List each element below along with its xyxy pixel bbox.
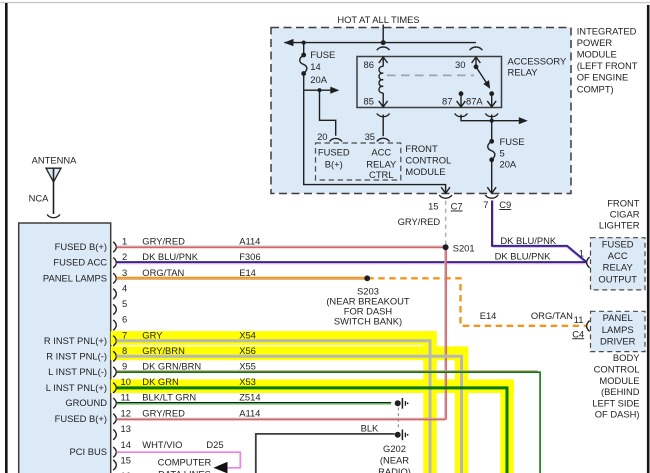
svg-text:RELAY: RELAY	[508, 66, 539, 77]
svg-text:GRY/RED: GRY/RED	[398, 216, 441, 227]
connector: pin 1 arc	[587, 257, 590, 268]
svg-text:10: 10	[121, 376, 131, 387]
wire: 87 stub with down arrow	[460, 94, 462, 107]
svg-text:ANTENNA: ANTENNA	[32, 154, 78, 165]
svg-text:FRONT: FRONT	[607, 197, 640, 208]
svg-text:DK GRN: DK GRN	[142, 376, 178, 387]
svg-text:FUSED: FUSED	[602, 238, 634, 249]
svg-text:FUSED ACC: FUSED ACC	[53, 257, 107, 268]
connector: frown arc above relay pin 30	[470, 47, 483, 50]
svg-text:MODULE: MODULE	[599, 375, 639, 386]
svg-text:R INST PNL(-): R INST PNL(-)	[46, 350, 107, 361]
page right border line	[647, 5, 650, 473]
svg-text:HOT AT ALL TIMES: HOT AT ALL TIMES	[337, 14, 419, 25]
svg-text:5: 5	[122, 298, 127, 309]
svg-text:ACCESSORY: ACCESSORY	[508, 56, 567, 67]
svg-text:GRY: GRY	[142, 329, 163, 340]
svg-text:LIGHTER: LIGHTER	[599, 219, 640, 230]
svg-text:86: 86	[364, 59, 374, 70]
highlight: yellow band row 8	[111, 346, 468, 360]
ground: G202 for BLK	[395, 430, 409, 441]
svg-text:C4: C4	[572, 328, 584, 339]
svg-text:S201: S201	[453, 242, 475, 253]
svg-text:SWITCH BANK): SWITCH BANK)	[334, 315, 402, 326]
svg-text:15: 15	[121, 455, 131, 466]
svg-text:INTEGRATED: INTEGRATED	[577, 25, 637, 36]
highlight: yellow band row 10	[111, 379, 514, 393]
arrow: down chevron at pin 85	[382, 93, 384, 107]
wire: GRY/RED vertical S201 to pin 12	[444, 247, 446, 419]
fuse F5 20A	[488, 121, 495, 193]
wire pin10 DK GRN	[117, 388, 508, 473]
wire: DK BLU/PNK from C9 to fused acc relay output	[493, 201, 585, 263]
connector: pin 20 frown arc	[329, 138, 342, 141]
node: junction 87 output	[490, 119, 494, 123]
connector: smile arc below pin 87	[455, 114, 468, 117]
svg-text:20: 20	[317, 131, 327, 142]
node: contact 87A	[489, 91, 494, 96]
svg-text:ACC: ACC	[371, 147, 391, 158]
svg-text:BLK/LT GRN: BLK/LT GRN	[142, 392, 196, 403]
svg-text:FUSED B(+): FUSED B(+)	[55, 413, 107, 424]
svg-text:7: 7	[122, 329, 127, 340]
node: junction to pin 20 drop	[317, 88, 321, 92]
wire: 87A stub with down arrow	[491, 94, 493, 107]
svg-text:2: 2	[122, 251, 127, 262]
svg-text:POWER: POWER	[577, 37, 613, 48]
svg-text:FRONT: FRONT	[405, 143, 438, 154]
svg-text:WHT/VIO: WHT/VIO	[142, 439, 182, 450]
svg-text:CONTROL: CONTROL	[405, 154, 451, 165]
fuse F14 20A	[300, 43, 307, 91]
node: switch pivot at pin 30	[474, 64, 479, 69]
module: Integrated Power Module (dashed box)	[271, 28, 571, 194]
svg-text:85: 85	[364, 96, 374, 107]
svg-text:11: 11	[121, 392, 131, 403]
svg-text:Z514: Z514	[239, 392, 260, 403]
svg-text:X56: X56	[239, 345, 256, 356]
wire: GRY/RED unused branch (gray dashed) below C7	[445, 201, 447, 248]
svg-text:G202: G202	[383, 443, 406, 454]
svg-text:35: 35	[365, 131, 375, 142]
arrow: down chevron at C7	[441, 187, 450, 193]
svg-text:BODY: BODY	[613, 352, 640, 363]
svg-text:C7: C7	[451, 201, 463, 212]
svg-text:LEFT SIDE: LEFT SIDE	[592, 397, 639, 408]
svg-text:FUSE: FUSE	[310, 49, 335, 60]
node: junction at HOT drop	[381, 40, 386, 45]
connector: pin 11 arc	[587, 321, 590, 332]
splice S203	[364, 275, 370, 281]
highlight: yellow band row 8 vertical	[455, 346, 468, 473]
wire pin3 ORG/TAN to S203	[117, 277, 368, 279]
switch: blade from 30 toward 87A	[476, 67, 487, 84]
svg-text:11: 11	[574, 314, 584, 325]
wire pin2 DK BLU/PNK to relay output	[117, 261, 587, 263]
svg-text:7: 7	[483, 199, 488, 210]
node: junction at fuse 14	[302, 41, 306, 45]
svg-text:GRY/RED: GRY/RED	[142, 407, 185, 418]
wire pin14 WHT/VIO PCI bus	[117, 452, 241, 468]
wire pin9 DK GRN/BRN	[117, 370, 538, 372]
svg-text:DK GRN/BRN: DK GRN/BRN	[142, 361, 201, 372]
svg-text:14: 14	[121, 439, 131, 450]
wire pin12 GRY/RED from S201	[117, 417, 446, 419]
svg-text:A114: A114	[239, 407, 260, 418]
svg-text:(LEFT FRONT: (LEFT FRONT	[577, 60, 638, 71]
svg-text:9: 9	[122, 361, 127, 372]
svg-text:B(+): B(+)	[325, 159, 343, 170]
svg-text:X53: X53	[239, 376, 256, 387]
wire: drop to FCM pin 20	[320, 90, 336, 136]
svg-text:DK BLU/PNK: DK BLU/PNK	[142, 251, 198, 262]
svg-text:OF DASH): OF DASH)	[595, 409, 640, 420]
wire pin8 GRY/BRN	[117, 356, 462, 473]
svg-text:BLK: BLK	[361, 423, 379, 434]
highlight: yellow band row 7 vertical	[423, 331, 436, 473]
svg-text:RELAY: RELAY	[603, 262, 634, 273]
svg-text:NCA: NCA	[29, 192, 50, 203]
svg-text:A114: A114	[239, 236, 260, 247]
coil: relay coil 86-85	[379, 66, 383, 93]
wire: branch with right arrow under fuse 14	[304, 89, 332, 91]
page top border line	[0, 2, 650, 4]
svg-text:COMPUTER: COMPUTER	[158, 457, 212, 468]
svg-text:L INST PNL(-): L INST PNL(-)	[48, 366, 107, 377]
svg-text:OF ENGINE: OF ENGINE	[577, 72, 629, 83]
svg-text:PANEL: PANEL	[603, 312, 633, 323]
page left border line	[5, 3, 8, 473]
node: contact 87	[459, 91, 464, 96]
svg-text:MODULE: MODULE	[577, 49, 617, 60]
svg-text:MODULE: MODULE	[405, 166, 445, 177]
wire: HOT feed drop into IPM	[382, 25, 384, 43]
arrow: down chevron at C9	[487, 187, 496, 193]
arrow: data lines pointer	[214, 462, 228, 473]
svg-text:4: 4	[122, 282, 127, 293]
svg-text:GROUND: GROUND	[65, 397, 107, 408]
module: panel lamps driver (dashed box)	[591, 311, 646, 351]
connector C7: smile arc	[439, 195, 452, 198]
svg-text:(NEAR: (NEAR	[380, 454, 409, 465]
svg-text:20A: 20A	[500, 159, 517, 170]
svg-text:F306: F306	[239, 251, 260, 262]
highlight: yellow band row 7	[111, 331, 437, 345]
wire: top horizontal bus inside IPM	[284, 42, 476, 44]
svg-text:X54: X54	[239, 329, 256, 340]
svg-text:X55: X55	[239, 361, 256, 372]
module: radio connector box	[19, 223, 111, 473]
connector: pin 35 frown arc	[377, 138, 390, 141]
svg-text:ORG/TAN: ORG/TAN	[531, 310, 573, 321]
svg-text:DK BLU/PNK: DK BLU/PNK	[500, 235, 556, 246]
svg-text:15: 15	[428, 201, 438, 212]
highlight: yellow band row 10 vertical	[500, 379, 513, 473]
wire: BLK to G202	[256, 434, 395, 473]
svg-text:DK BLU/PNK: DK BLU/PNK	[495, 250, 551, 261]
svg-text:FUSED: FUSED	[318, 147, 350, 158]
wire: ORG/TAN dashed to panel lamps driver	[367, 278, 587, 326]
arrow: up chevron into pin 30	[472, 57, 481, 63]
connector: frown arc above relay pin 86	[377, 47, 390, 50]
svg-text:6: 6	[122, 314, 127, 325]
arrow: off-page left	[284, 39, 294, 46]
svg-text:CTRL: CTRL	[369, 169, 393, 180]
arrow: up chevron into pin 86	[379, 57, 388, 63]
svg-text:ACC: ACC	[608, 250, 628, 261]
connector C9: smile arc	[485, 195, 498, 198]
svg-text:8: 8	[122, 345, 127, 356]
svg-text:FUSE: FUSE	[500, 136, 525, 147]
svg-text:OUTPUT: OUTPUT	[598, 273, 637, 284]
svg-text:PCI BUS: PCI BUS	[69, 446, 107, 457]
svg-text:3: 3	[122, 267, 127, 278]
svg-text:5: 5	[500, 147, 505, 158]
wire: relay 85 to FCM pin 35	[382, 115, 384, 137]
svg-text:GRY/BRN: GRY/BRN	[142, 345, 185, 356]
svg-text:CIGAR: CIGAR	[610, 208, 640, 219]
svg-text:GRY/RED: GRY/RED	[142, 236, 185, 247]
svg-text:R INST PNL(+): R INST PNL(+)	[44, 335, 107, 346]
link: dashed actuation line	[387, 74, 474, 76]
svg-text:COMPT): COMPT)	[577, 83, 614, 94]
connector arcs pins 1-16	[113, 242, 116, 470]
splice S201	[443, 244, 449, 250]
svg-text:30: 30	[455, 59, 465, 70]
module: Front Control Module (dashed box)	[316, 143, 401, 180]
svg-text:13: 13	[121, 423, 131, 434]
svg-text:14: 14	[310, 61, 320, 72]
svg-text:ORG/TAN: ORG/TAN	[142, 267, 184, 278]
pin numbers	[121, 236, 131, 473]
svg-text:12: 12	[121, 407, 131, 418]
svg-text:D25: D25	[206, 439, 223, 450]
svg-text:FUSED B(+): FUSED B(+)	[55, 241, 107, 252]
svg-text:CONTROL: CONTROL	[594, 364, 640, 375]
svg-text:87A: 87A	[466, 96, 483, 107]
svg-text:1: 1	[122, 236, 127, 247]
svg-text:E14: E14	[480, 310, 497, 321]
connector: smile arc below pin 87A	[485, 114, 498, 117]
wire pin7 GRY right speaker +	[117, 341, 431, 473]
wire pin1 GRY/RED to S201	[117, 245, 446, 247]
svg-text:PANEL LAMPS: PANEL LAMPS	[43, 272, 107, 283]
ground: for pin 11	[395, 398, 409, 409]
wire color / circuit labels	[142, 236, 260, 450]
svg-text:E14: E14	[239, 267, 256, 278]
relay: accessory relay box	[357, 57, 502, 108]
wire pin11 BLK/LT GRN to ground	[117, 402, 392, 404]
svg-text:1: 1	[579, 248, 584, 259]
wire: fused B+ run to connector C7	[304, 90, 446, 192]
svg-text:DATA LINES: DATA LINES	[158, 468, 211, 473]
link: dashed ground tie	[397, 408, 399, 431]
svg-text:87: 87	[442, 96, 452, 107]
svg-text:LAMPS: LAMPS	[602, 324, 634, 335]
svg-text:C9: C9	[499, 199, 511, 210]
module: fused acc relay output (dashed box)	[591, 238, 646, 290]
connector: antenna smile arc at radio	[47, 215, 60, 218]
svg-text:L INST PNL(+): L INST PNL(+)	[46, 382, 107, 393]
connector: smile arc below pin 85	[377, 114, 390, 117]
svg-text:20A: 20A	[310, 74, 327, 85]
svg-text:DRIVER: DRIVER	[600, 336, 636, 347]
svg-text:(BEHIND: (BEHIND	[601, 386, 640, 397]
svg-text:RADIO): RADIO)	[378, 466, 411, 473]
wire: 87/87A merge and feed fuse 5	[461, 115, 520, 121]
